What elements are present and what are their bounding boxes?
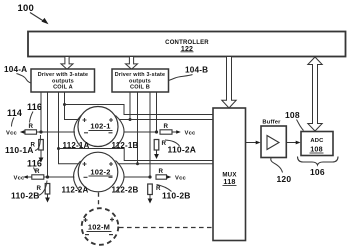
wire node to gnd arrow row2 left [47,194,49,199]
junction dot B2 [136,162,139,165]
dashed wire coilM to MUX [119,227,212,229]
label 106 [310,167,325,177]
wire node to gnd arrow row1 left [40,150,42,159]
junction dot A4 [63,103,66,106]
wire buffer to ADC [287,142,297,144]
label 112-1A [63,141,90,150]
ADC label [310,138,324,154]
svg-text:110-2B: 110-2B [162,191,191,201]
wire R to Vcc row2 right [167,176,168,178]
svg-text:118: 118 [223,177,235,186]
junction dot B1 [129,118,132,121]
resistor R pullup row2 right [156,175,167,179]
node dot row1 right [155,130,158,133]
svg-text:112-2A: 112-2A [62,186,89,195]
arrowhead into ADC [296,141,301,145]
svg-text:COIL B: COIL B [130,85,150,91]
svg-text:outputs: outputs [129,78,151,84]
wire coil2 right terminal to MUX [118,163,214,165]
svg-text:Driver with 3-state: Driver with 3-state [38,72,89,78]
Vcc label row2 left [14,175,25,181]
svg-text:114: 114 [7,108,22,118]
svg-text:120: 120 [277,174,292,184]
leader 116 row1 [30,112,34,123]
plus terminal coilM right [110,218,114,222]
leader 108 [297,120,304,131]
wire R to Vcc row1 right [172,131,177,133]
driver B label [115,72,166,91]
svg-text:110-2A: 110-2A [168,145,197,155]
Vcc label row1 right [185,130,196,136]
R value label series row2 right [156,185,161,192]
svg-text:116: 116 [27,102,42,112]
block arrow controller to driver A [61,57,73,70]
series resistor R row1 left [39,140,44,151]
label 110-2B left [11,191,40,201]
svg-text:R: R [159,168,164,175]
svg-text:Driver with 3-state: Driver with 3-state [115,72,166,78]
svg-text:110-1A: 110-1A [5,145,34,155]
wire B1: driver B out to junction [129,92,131,120]
plus terminal coil1 left [83,118,87,122]
wire B4: driver B out to node row1 right [156,92,158,132]
leader 110-2A right [165,140,180,146]
block arrow controller to MUX [222,57,236,109]
arrowhead into buffer [256,141,261,145]
resistor R pullup row1 left [25,130,37,134]
Vcc arrowhead row2 left [23,175,28,179]
label 114 [7,108,22,118]
label 104-B [185,66,208,75]
series resistor R row2 left [45,184,50,195]
gnd arrow row2 right [148,199,153,204]
underbrace 106 [298,157,339,166]
label 110-2A right [168,145,197,155]
R value label series row1 left [31,142,36,149]
gnd arrow row1 right [154,154,159,159]
svg-text:116: 116 [27,159,42,169]
svg-text:COIL A: COIL A [53,85,73,91]
svg-text:102-1: 102-1 [90,122,110,131]
svg-text:Vcc: Vcc [185,130,196,136]
svg-text:106: 106 [310,167,325,177]
label 110-1A [5,145,34,155]
label 100 [18,3,34,14]
gnd arrow row1 left [39,158,44,163]
plus terminal coil2 left [83,162,87,166]
R value label series row2 left [37,185,42,192]
leader 110-2B right [157,185,172,192]
coil2 right lead arc [116,161,125,193]
svg-text:104-A: 104-A [4,65,27,74]
coil 102-M label [88,223,110,232]
svg-text:108: 108 [285,110,300,120]
R value label row1 right [164,123,169,130]
wire A4: driver A out down [65,92,80,120]
wire MUX to buffer [246,142,257,144]
wire B2: driver B out to junction [137,92,139,164]
svg-text:Buffer: Buffer [262,120,281,126]
coil 102-1 label [90,122,110,131]
svg-text:112-1A: 112-1A [63,141,90,150]
leader 110-1A [35,135,41,151]
underline 102-2 [89,175,113,177]
series resistor R row2 right [148,184,153,195]
svg-text:ADC: ADC [310,138,324,144]
svg-text:R: R [164,123,169,130]
label 116 row2 [27,159,42,169]
svg-text:102-2: 102-2 [90,168,110,177]
svg-text:110-2B: 110-2B [11,191,40,201]
double block arrow controller to ADC [308,57,322,131]
minus terminal coil2 right [109,176,113,178]
svg-text:108: 108 [310,145,323,154]
coil2 left lead arc [74,161,81,192]
dashed wire coil2 to coilM [98,193,100,208]
svg-text:outputs: outputs [52,78,74,84]
driver U104-B box [112,69,169,92]
gnd arrow row2 left [45,198,50,203]
wire A1: driver A out to node 110-1A [40,92,42,132]
leader arrow for 100 [30,13,45,23]
node row2 right sense wire [124,176,151,178]
node row2 left sense wire [25,176,75,178]
buffer op-amp triangle [267,136,279,150]
svg-text:104-B: 104-B [185,66,208,75]
buffer label [262,120,281,126]
R value label series row1 right [162,140,167,147]
underline 102-M [87,231,112,233]
driver A label [38,72,89,91]
minus terminal coilM right [109,234,113,236]
coil 102-2 label [90,168,110,177]
driver U104-A box [31,69,95,92]
Vcc arrowhead row1 right [176,130,181,134]
node 110-1A sense wire [21,131,75,133]
label 120 [277,174,292,184]
underline 122 [181,51,194,53]
ADC U108 box [301,132,333,156]
node row1 right sense wire [124,131,157,133]
underline 118 [223,185,237,187]
svg-text:102-M: 102-M [88,223,110,232]
plus terminal coilM left [84,218,88,222]
MUX U118 box [213,108,246,241]
wire A3 branch to MUX [59,149,214,161]
coil 102-1 [78,107,118,147]
R value label row2 right [159,168,164,175]
wire A2: driver A out to node row2 [47,92,49,177]
controller U122 box [28,32,346,57]
label 112-2B [112,186,139,195]
R value label row1 left [29,123,34,130]
Vcc arrowhead row1 left [20,130,25,134]
svg-text:112-1B: 112-1B [112,141,139,150]
resistor R pullup row1 right [160,130,172,134]
Vcc label row2 right [175,175,186,181]
wire B3: driver B out to node row2 right [149,92,151,177]
MUX label [222,172,237,187]
svg-text:Vcc: Vcc [6,130,17,136]
minus terminal coil2 left [84,176,88,178]
buffer U120 box [261,126,286,158]
svg-text:Vcc: Vcc [14,175,25,181]
svg-text:R: R [162,140,167,147]
svg-text:R: R [29,123,34,130]
label 116 row1 [27,102,42,112]
node dot row2 left [46,175,49,178]
block arrow controller to driver B [126,57,138,70]
series resistor R row1 right [154,140,159,151]
label 112-2A [62,186,89,195]
leader 120 [271,158,283,173]
plus terminal coil2 right [109,162,113,166]
minus terminal coil1 right [109,132,113,134]
wire A4 branch to MUX [65,105,214,115]
controller label [165,40,209,53]
svg-text:100: 100 [18,3,34,14]
coil1 right lead arc [116,116,125,148]
wire node to gnd arrow row1 right [156,150,158,155]
Vcc label row1 left [6,130,17,136]
leader 116 row2 [34,168,37,174]
junction dot A3 [57,147,60,150]
leader 104-B [169,75,193,81]
Vcc arrowhead row2 right [167,175,172,179]
label 112-1B [112,141,139,150]
leader 114 [12,118,15,127]
label 110-2B right [162,191,191,201]
R value label row2 left [35,168,40,175]
plus terminal coil1 right [109,118,113,122]
node dot row2 right [148,175,151,178]
minus terminal coilM left [85,234,89,236]
node dot 110-1A [39,130,42,133]
leader 104-A [17,74,32,84]
wire coil1 right terminal to MUX [120,119,214,121]
underline 108 in box [310,152,324,154]
coil 102-2 [78,152,118,192]
svg-text:Vcc: Vcc [175,175,186,181]
minus terminal coil1 left [84,132,88,134]
wire A3: driver A out down [59,92,80,164]
svg-text:R: R [156,185,161,192]
svg-text:112-2B: 112-2B [112,186,139,195]
label 104-A [4,65,27,74]
resistor R pullup row2 left [32,175,44,179]
coil1 left lead arc [74,116,81,148]
label 108 outer [285,110,300,120]
underline 102-1 [89,130,113,132]
leader 110-2B left [39,181,48,196]
coil 102-M dashed [82,208,119,245]
wire node to gnd arrow row2 right [149,195,151,200]
